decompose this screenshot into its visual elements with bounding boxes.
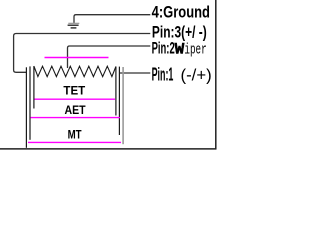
wire: Pin 2 wiper leader and drop to resistor — [68, 46, 151, 68]
left tail wire L2 (to AET) — [29, 66, 31, 139]
wiper layer (magenta) — [45, 57, 109, 59]
svg-text:MT: MT — [68, 127, 82, 141]
svg-text:Pin:1: Pin:1 — [152, 65, 174, 85]
wire: ground leader (Pin 4) with corner — [74, 15, 150, 23]
svg-text:iper: iper — [184, 41, 206, 58]
svg-text:Pin:2: Pin:2 — [152, 38, 175, 57]
right tail wire R3 (MT, gray) — [122, 67, 124, 144]
AET layer (magenta) — [31, 117, 121, 119]
resistor element (resistive strip) — [34, 66, 116, 77]
right tail wire R2 (AET) — [118, 67, 120, 135]
frame border (right + bottom) — [0, 0, 217, 149]
left tail wire L3 (to TET) — [33, 66, 35, 108]
MT layer (magenta) — [28, 141, 121, 143]
svg-text:W: W — [175, 40, 185, 58]
wire: Pin 1 leader — [119, 72, 150, 74]
left tail wire L1 (to MT) — [25, 67, 27, 148]
svg-text:4:Ground: 4:Ground — [152, 3, 210, 22]
svg-text:(-/+): (-/+) — [181, 66, 212, 85]
svg-text:TET: TET — [63, 84, 85, 98]
svg-text:AET: AET — [65, 103, 87, 117]
wire: Pin 3 leader, left drop and stub to resistor — [14, 34, 151, 73]
ground — [68, 23, 80, 28]
TET layer (magenta) — [35, 98, 116, 100]
right tail wire R1 (TET) — [115, 67, 117, 116]
